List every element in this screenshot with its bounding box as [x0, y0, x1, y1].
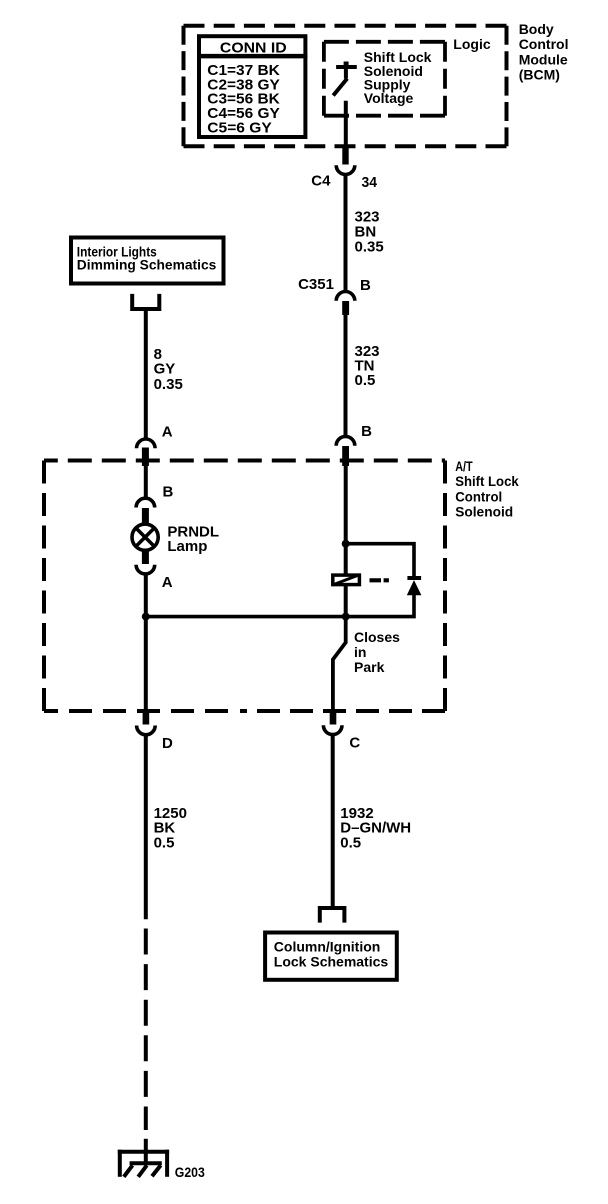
wire junction horizontal [146, 615, 346, 619]
off-page bracket to Column/Ignition Lock Schematics [320, 908, 345, 923]
wire 8 GY 0.35 [144, 309, 148, 440]
connector B of PRNDL lamp (cap and stub) [136, 498, 155, 523]
svg-text:Shift Lock: Shift Lock [455, 473, 519, 489]
junction dot left [142, 613, 150, 621]
logic dashed box [324, 42, 445, 116]
svg-text:0.5: 0.5 [340, 835, 361, 852]
dashed mechanical link from coil [370, 578, 390, 582]
wire 1250 BK 0.5 solid part [144, 734, 148, 919]
PRNDL lamp L1 [132, 524, 158, 550]
junction dot bottom of solenoid coil branch [342, 613, 350, 621]
svg-text:(BCM): (BCM) [519, 67, 560, 83]
svg-text:C: C [349, 734, 360, 751]
clamp diode branch wires [346, 544, 414, 617]
label Closes in Park [354, 629, 400, 675]
solenoid coil [333, 575, 360, 585]
svg-text:A/T: A/T [455, 458, 473, 474]
svg-text:B: B [163, 484, 174, 501]
Column/Ignition Lock Schematics box [265, 933, 397, 980]
svg-text:C4: C4 [311, 173, 331, 190]
wire 323 TN 0.5 [344, 315, 348, 437]
wire: switch to connector C4 [344, 101, 348, 149]
svg-text:CONN ID: CONN ID [220, 39, 287, 56]
switch S (shift lock solenoid supply voltage driver) [333, 62, 357, 96]
svg-text:C351: C351 [298, 276, 334, 293]
svg-text:Lamp: Lamp [167, 538, 207, 555]
junction dot top of solenoid coil branch [342, 540, 350, 548]
connector A at A/T top (female cap and male stub crossing border) [137, 439, 156, 466]
svg-text:Solenoid: Solenoid [455, 504, 513, 520]
svg-text:C5=6 GY: C5=6 GY [207, 120, 271, 137]
svg-text:Body: Body [519, 21, 554, 37]
wire connector A to lamp connector B [144, 466, 148, 499]
svg-text:Closes: Closes [354, 629, 400, 645]
off-page bracket below Interior Lights box [132, 294, 159, 309]
svg-text:Control: Control [519, 36, 569, 52]
wire 1932 D-GN/WH 0.5 [331, 734, 335, 906]
BCM module dashed box [184, 26, 507, 147]
connector C4 pin 34 (male stub and female cup) [336, 147, 355, 174]
svg-text:Logic: Logic [453, 36, 491, 52]
connector A of PRNDL lamp (stub and cup) [136, 552, 155, 574]
label Shift Lock Solenoid Supply Voltage [364, 49, 432, 106]
svg-text:Dimming Schematics: Dimming Schematics [77, 257, 217, 273]
wire coil to bottom junction [344, 584, 348, 617]
svg-text:A: A [162, 424, 173, 441]
connector D (stub and cup at A/T bottom) [137, 710, 156, 735]
label 323 BN 0.35 [355, 209, 384, 256]
svg-text:0.35: 0.35 [154, 376, 183, 393]
svg-text:D: D [162, 735, 173, 752]
label Body Control Module (BCM) [519, 21, 569, 83]
label 323 TN 0.5 [355, 343, 380, 389]
label 8 GY 0.35 [154, 346, 183, 393]
label PRNDL Lamp [167, 524, 219, 555]
svg-text:0.5: 0.5 [154, 835, 175, 852]
svg-text:A: A [162, 574, 173, 591]
label 1250 BK 0.5 [154, 805, 187, 852]
wire junction to connector D [144, 617, 148, 711]
wire 323 BN 0.35 [344, 174, 348, 292]
connector C (stub and cup at A/T bottom) [323, 710, 342, 735]
label 1932 D-GN/WH 0.5 [340, 805, 411, 852]
svg-text:Lock Schematics: Lock Schematics [274, 954, 389, 970]
svg-text:Control: Control [455, 488, 502, 504]
svg-text:34: 34 [362, 174, 378, 191]
svg-text:Park: Park [354, 659, 385, 675]
svg-text:in: in [354, 644, 366, 660]
wire lamp to junction [144, 574, 148, 620]
park switch (closes in park) [333, 617, 346, 711]
label A/T Shift Lock Control Solenoid [455, 458, 519, 520]
clamp diode D (cathode bar and triangle) [407, 578, 422, 595]
Interior Lights Dimming Schematics box [71, 238, 224, 284]
connector C351 pin B (female cap and male stub) [336, 291, 355, 315]
A/T shift lock control solenoid dashed box [44, 461, 445, 712]
svg-text:G203: G203 [175, 1164, 205, 1180]
svg-text:Column/Ignition: Column/Ignition [274, 939, 381, 955]
svg-text:Voltage: Voltage [364, 90, 414, 106]
wire connector B to coil [344, 466, 348, 575]
svg-text:Module: Module [519, 51, 568, 67]
CONN ID table rows [207, 62, 280, 137]
svg-text:B: B [361, 423, 372, 440]
ground G203 symbol [118, 1150, 169, 1177]
svg-text:B: B [360, 277, 371, 294]
wire stub into ground [144, 1139, 148, 1166]
svg-text:0.35: 0.35 [355, 238, 384, 255]
svg-text:0.5: 0.5 [355, 372, 376, 389]
wire 1250 BK 0.5 dashed part [144, 929, 148, 1131]
CONN ID table frame [197, 36, 307, 137]
connector B at A/T solenoid (female cap and male stub crossing border) [336, 436, 355, 466]
